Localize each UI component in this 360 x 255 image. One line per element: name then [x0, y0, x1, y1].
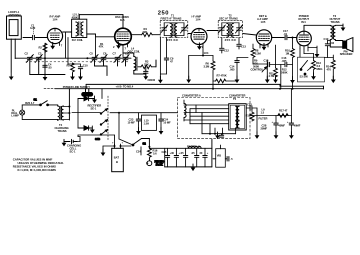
svg-text:C24: C24	[136, 150, 141, 154]
wire T4 secondary	[64, 107, 81, 142]
ground (V5 cathode)	[308, 46, 317, 54]
ground (selenium)	[62, 139, 67, 146]
filter right rail	[211, 139, 213, 167]
rectifier SE1 label	[88, 103, 102, 110]
resistor R8	[251, 44, 261, 64]
node junction V3	[202, 55, 204, 57]
wire V3 cathode	[189, 56, 213, 79]
wire detector output	[267, 65, 292, 89]
svg-text:C12: C12	[224, 49, 229, 53]
ground (V4 filament)	[262, 43, 267, 50]
resistor R1 label	[99, 42, 104, 49]
coil L2-L3 R-F coil	[72, 19, 87, 37]
capacitor C8A	[144, 71, 148, 76]
dial lamp PL1 label	[11, 108, 19, 117]
svg-text:C10: C10	[83, 64, 88, 68]
ground (R5)	[70, 73, 75, 80]
svg-text:10 MF: 10 MF	[163, 121, 171, 125]
ground (C9)	[158, 76, 163, 83]
wire T2 to V4	[243, 34, 257, 36]
filter choke label	[187, 145, 200, 149]
svg-text:.05: .05	[48, 65, 52, 69]
vibrator contacts	[184, 105, 229, 124]
transformer T3 OUTPUT	[332, 26, 333, 37]
node bus junctions	[212, 88, 214, 90]
wire antenna bottom down	[14, 39, 16, 59]
ground (R11)	[273, 76, 278, 83]
ground (gang)	[43, 74, 48, 81]
svg-text:TRANS: TRANS	[331, 20, 340, 24]
potentiometer R9	[253, 60, 267, 80]
ground (C27)	[274, 132, 279, 139]
resistor R17	[278, 109, 288, 118]
wire lamp loop	[22, 105, 58, 121]
converter transformer T5	[229, 104, 247, 130]
filter bottom rail	[165, 166, 212, 168]
svg-text:C22: C22	[247, 103, 252, 107]
svg-text:1U4: 1U4	[204, 51, 209, 55]
resistor R7	[213, 74, 237, 83]
capacitor C30	[219, 134, 223, 137]
resistor R1A	[39, 43, 47, 52]
resistor R6	[204, 56, 215, 89]
wire V5 pins to box	[300, 48, 314, 59]
svg-text:4.7M: 4.7M	[269, 74, 276, 78]
tube V5 POWER OUTPUT label	[298, 14, 309, 24]
wire L2 top to V2 top	[79, 15, 123, 29]
tube V1 R-F AMP	[47, 28, 62, 43]
transformer T4 CHARGING	[60, 106, 61, 120]
T1 internal wires	[164, 23, 184, 36]
T2 internal wires	[222, 23, 239, 36]
capacitor C12	[220, 48, 230, 53]
wire voice coil	[325, 41, 334, 58]
svg-text:CONTROL: CONTROL	[251, 68, 264, 72]
resistor R10	[285, 37, 294, 89]
svg-text:3-30: 3-30	[30, 26, 36, 30]
variable capacitor C3	[35, 52, 42, 63]
wire box corner down	[290, 89, 292, 116]
capacitor C15	[264, 59, 270, 67]
loop antenna L1	[7, 16, 22, 39]
switch S1B pole 3	[95, 130, 108, 142]
transformer T1 FIRST I-F	[160, 21, 188, 38]
svg-text:1L6: 1L6	[120, 18, 125, 22]
resistor R3	[138, 60, 156, 69]
wire V3 to T2	[207, 30, 218, 32]
ground (C23)	[136, 128, 141, 135]
svg-text:560K: 560K	[281, 70, 287, 74]
svg-text:1U5: 1U5	[261, 20, 266, 24]
transformer T3 label	[330, 14, 341, 24]
tuning gang bus wire	[15, 57, 131, 59]
wire rect net	[72, 89, 102, 128]
ground (SE1)	[92, 96, 97, 103]
resistor R4	[142, 27, 152, 36]
svg-text:20MF: 20MF	[261, 127, 268, 131]
svg-text:FILTER: FILTER	[259, 117, 268, 121]
svg-text:C25: C25	[162, 150, 167, 154]
svg-text:TRANS: TRANS	[58, 129, 67, 133]
svg-text:47K: 47K	[99, 45, 104, 49]
ground (C8A)	[143, 73, 148, 80]
tube V3 I-F AMP	[191, 29, 207, 45]
S3 label	[300, 75, 309, 79]
wire R3 right	[155, 60, 157, 67]
V1 pins	[53, 42, 60, 45]
resistor R16	[148, 148, 158, 160]
capacitor C26B	[191, 148, 199, 167]
transformer T2 label	[219, 14, 238, 21]
svg-text:10 MF: 10 MF	[128, 121, 136, 125]
svg-text:BAT: BAT	[114, 156, 120, 160]
V3 pins	[199, 43, 203, 56]
choke L9	[259, 108, 268, 121]
svg-text:470K: 470K	[221, 74, 227, 78]
capacitor C24	[136, 147, 141, 155]
svg-text:3V4: 3V4	[301, 20, 306, 24]
T1 trimmer caps	[161, 25, 168, 33]
capacitor C27A	[200, 148, 209, 167]
switch box S3	[298, 57, 325, 82]
capacitor C23	[128, 113, 141, 131]
wire bus drop	[85, 84, 87, 88]
svg-text:40MF: 40MF	[294, 124, 301, 128]
variable capacitor C6	[100, 52, 107, 63]
resistor R19	[246, 108, 254, 121]
ground (R9 pot)	[265, 76, 270, 83]
tuning gang dashed link	[26, 61, 128, 63]
variable capacitor C7B	[122, 52, 129, 63]
ground (C24A)	[159, 128, 164, 135]
variable capacitor C7	[113, 52, 122, 63]
capacitor C16	[282, 56, 288, 67]
oscillator coil L4	[136, 57, 137, 71]
wire C1 to V1 grid	[35, 37, 47, 39]
ground (V3 cathode)	[186, 76, 191, 83]
wire filter left	[164, 148, 166, 167]
battery B1	[112, 148, 124, 171]
svg-text:250: 250	[158, 11, 169, 17]
svg-text:.005: .005	[230, 68, 236, 72]
svg-text:.05: .05	[180, 151, 184, 155]
wire osc coil	[123, 53, 146, 74]
svg-text:1U4: 1U4	[53, 18, 58, 22]
capacitor C4	[43, 63, 52, 70]
battery terminals	[115, 144, 121, 148]
ground (battery)	[101, 149, 106, 156]
capacitor C28	[261, 116, 301, 136]
wire L2 returns	[66, 32, 81, 67]
svg-text:SEC I-F TRANS: SEC I-F TRANS	[219, 17, 238, 21]
filter top rail	[149, 147, 212, 149]
capacitor C14	[230, 58, 240, 79]
capacitor C9	[164, 38, 174, 75]
ground (converter bottom)	[217, 134, 219, 136]
V1 plate wire to L2	[63, 31, 72, 33]
svg-text:CONVERTER: CONVERTER	[229, 94, 245, 98]
svg-text:40MF: 40MF	[278, 124, 285, 128]
svg-text:C15: C15	[264, 59, 269, 63]
wire grid drop	[95, 37, 97, 57]
svg-text:C6: C6	[103, 52, 107, 56]
wire T2 bottom to C14	[222, 38, 248, 58]
svg-text:SE-1: SE-1	[91, 106, 97, 110]
svg-text:1U4: 1U4	[196, 18, 201, 22]
svg-text:S1B: S1B	[95, 137, 100, 141]
V2 pins	[119, 44, 128, 57]
resistor R12 label	[281, 68, 287, 75]
wire vibrator stubs	[213, 145, 227, 159]
wire T1 to V3	[188, 33, 191, 35]
variable capacitor C5	[90, 52, 99, 63]
wire battery top	[78, 135, 131, 146]
ground (V3 filament)	[197, 43, 202, 50]
tube V2 OSC-CONV	[115, 28, 132, 45]
ground (V1 filament)	[50, 42, 55, 49]
vibrator coil L7	[184, 100, 186, 121]
tube V3 I-F AMP label	[192, 15, 202, 22]
ground (antenna)	[9, 73, 14, 80]
resistor R14	[326, 55, 335, 79]
filter choke L8	[188, 146, 201, 148]
converter transformer label	[229, 94, 245, 101]
tube V4 DET &amp; A-F AMP	[256, 30, 271, 45]
tube V4 DET-AF label	[257, 14, 268, 24]
notes text	[13, 157, 64, 172]
wire T3 to speaker	[330, 40, 342, 47]
svg-text:JACK: JACK	[156, 163, 163, 167]
capacitor C22	[246, 103, 257, 111]
switch S1B pole 1	[100, 109, 107, 115]
wire C9 to ground	[160, 38, 166, 80]
phone jack J1	[146, 158, 164, 166]
svg-text:LAMP: LAMP	[11, 114, 19, 118]
capacitor C25A	[162, 148, 172, 167]
svg-text:1.5: 1.5	[261, 111, 265, 115]
svg-text:R2: R2	[39, 46, 43, 50]
wire R4 to T1	[152, 34, 160, 36]
switch S3	[300, 61, 307, 75]
svg-text:B: B	[116, 160, 118, 164]
transformer T2 SEC I-F	[218, 21, 243, 38]
wire switch to converter	[110, 113, 178, 145]
wire C22 down	[256, 108, 258, 135]
bus line B minus lower	[55, 88, 324, 90]
speaker label	[340, 49, 353, 56]
svg-text:2.2M: 2.2M	[255, 52, 262, 56]
capacitor C17	[283, 29, 288, 40]
wire V4 cathode down	[275, 45, 277, 68]
svg-text:.02: .02	[331, 41, 335, 45]
capacitor C27	[272, 116, 286, 136]
wire L2 right to V2 grid	[87, 34, 115, 37]
bus line right box	[280, 84, 324, 89]
capacitor C26A	[180, 148, 188, 167]
ground (R10 bus)	[290, 77, 295, 84]
svg-text:K=1,000, M=1,000,000 OHMS: K=1,000, M=1,000,000 OHMS	[18, 168, 57, 172]
capacitor C29	[227, 157, 233, 161]
potentiometer R13	[308, 58, 323, 76]
svg-text:C13: C13	[241, 45, 246, 49]
selenium cell symbol	[64, 139, 77, 143]
T2 trimmer caps	[218, 25, 225, 33]
ground (R14)	[331, 76, 336, 83]
transformer T1 label	[161, 14, 182, 21]
svg-text:.005: .005	[282, 59, 288, 63]
wire gang verticals	[30, 44, 126, 76]
svg-text:SW: SW	[304, 75, 309, 79]
wire C17 to V5 grid	[288, 37, 297, 39]
ground (C28)	[289, 132, 294, 139]
svg-text:22K: 22K	[143, 30, 148, 34]
capacitor C25B	[171, 148, 180, 167]
svg-text:+A B- TO NO.4: +A B- TO NO.4	[116, 85, 134, 89]
capacitor C1	[30, 24, 36, 40]
svg-text:C2: C2	[25, 52, 29, 56]
tube V5 POWER OUTPUT	[297, 31, 312, 46]
switch S2	[132, 139, 149, 149]
capacitor C19	[324, 37, 335, 57]
wire V5 plate to T3	[304, 25, 331, 31]
wire antenna to C1	[23, 37, 32, 39]
svg-text:455 KC: 455 KC	[167, 38, 180, 42]
wire battery left ground	[103, 146, 115, 152]
svg-text:R-F COIL: R-F COIL	[72, 38, 84, 42]
svg-text:C7: C7	[113, 52, 117, 56]
ground (C14)	[235, 76, 240, 83]
capacitor C24A	[159, 113, 171, 131]
oscillator coil L4 label	[128, 47, 141, 54]
switch S1B dashed link	[107, 96, 109, 140]
svg-text:C3: C3	[38, 52, 42, 56]
bus line B minus upper	[86, 83, 280, 85]
switch S1B pole 2	[100, 120, 107, 126]
svg-text:SPEAKER: SPEAKER	[340, 52, 353, 56]
ground (SE2)	[90, 126, 95, 133]
C8 label	[148, 78, 156, 82]
AC plug P1	[82, 89, 93, 96]
ground (C22)	[255, 132, 260, 139]
ground (R13 pot)	[311, 73, 316, 80]
capacitor C10	[78, 64, 88, 77]
rectifier SE1	[78, 96, 95, 100]
coil L2-L3 label	[72, 13, 80, 20]
converter bottom wire	[202, 120, 236, 134]
selenium label	[67, 143, 81, 153]
svg-text:455 KC: 455 KC	[225, 38, 238, 42]
tube V2 OSC-CONV label	[115, 15, 129, 22]
svg-text:1.5H: 1.5H	[144, 121, 150, 125]
svg-text:CONVERTER A: CONVERTER A	[182, 94, 201, 98]
V2 plate wire to R4	[131, 34, 141, 36]
switch S1	[34, 98, 49, 106]
volume control R9 label	[251, 59, 264, 72]
capacitor block CB1	[142, 115, 157, 130]
V4 pins	[260, 44, 268, 48]
wire converter to C27 rail	[250, 115, 291, 117]
svg-text:22K: 22K	[144, 62, 149, 66]
resistor R5 vertical	[67, 63, 75, 77]
svg-text:.01: .01	[284, 32, 288, 36]
variable capacitor C2	[25, 52, 34, 63]
capacitor C13	[237, 44, 247, 49]
V5 pins	[300, 45, 308, 49]
speaker LS1	[343, 38, 353, 52]
T4 label	[55, 123, 69, 133]
ground (T3 secondary)	[341, 24, 346, 31]
svg-text:VIB: VIB	[217, 154, 221, 158]
svg-text:MEG: MEG	[317, 67, 323, 71]
svg-text:FIRST I-F TRANS: FIRST I-F TRANS	[161, 17, 182, 21]
svg-text:5.6: 5.6	[153, 152, 157, 156]
ground (filter)	[191, 164, 196, 171]
resistor R11	[269, 68, 278, 80]
svg-text:SC-1: SC-1	[70, 149, 76, 153]
wire power line down	[68, 89, 70, 120]
rectifier SE2	[78, 126, 92, 130]
dial lamp PL1	[20, 110, 25, 115]
svg-text:3.3M: 3.3M	[204, 65, 211, 69]
vibrator box VB1	[216, 149, 226, 168]
tube V1 R-F AMP label	[50, 15, 61, 22]
svg-text:.05: .05	[191, 151, 195, 155]
loop antenna L1 label	[8, 10, 21, 17]
svg-text:100: 100	[151, 78, 156, 82]
ground (C10)	[78, 73, 83, 80]
svg-text:470: 470	[327, 68, 332, 72]
svg-text:C5: C5	[90, 52, 94, 56]
wire T3 secondary top to ground	[335, 24, 343, 26]
wire V4 plate to C17	[272, 37, 284, 39]
converter dashed box	[178, 98, 251, 139]
bus dashed left	[44, 88, 55, 90]
